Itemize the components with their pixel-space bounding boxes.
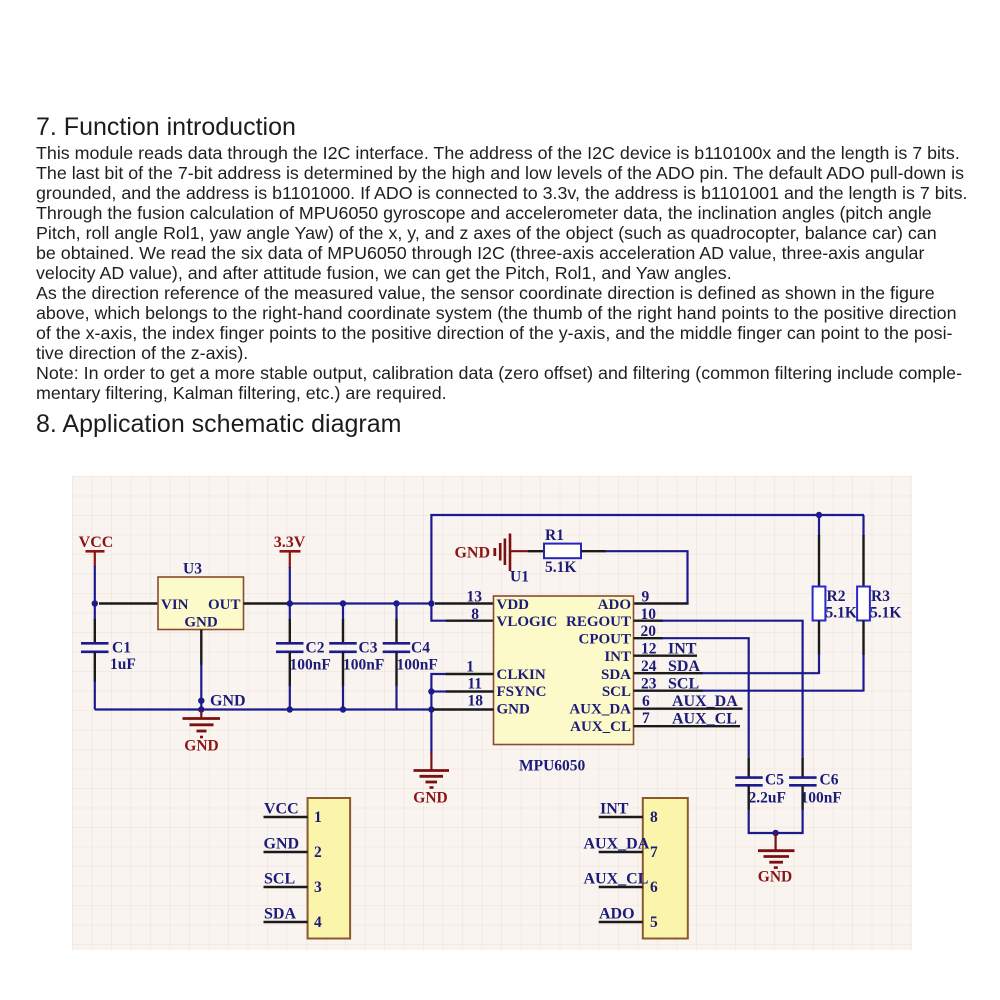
- svg-text:FSYNC: FSYNC: [497, 684, 547, 700]
- svg-text:SCL: SCL: [668, 676, 699, 693]
- power ground symbol at U1 (sideways): [454, 534, 529, 572]
- svg-text:C3: C3: [359, 640, 378, 657]
- power symbol VCC: [79, 534, 114, 567]
- wire OUT pin to rail: [244, 602, 433, 604]
- svg-text:11: 11: [467, 676, 482, 693]
- node VCC/C1 junction: [92, 600, 98, 606]
- svg-text:100nF: 100nF: [397, 657, 438, 674]
- wire R1 to ADO pin: [605, 551, 689, 603]
- svg-text:GND: GND: [264, 836, 300, 853]
- svg-text:R1: R1: [545, 527, 564, 544]
- wire SDA pin to R2 with net label: [634, 658, 819, 675]
- svg-text:ADO: ADO: [598, 597, 631, 613]
- wire CLKIN/FSYNC/GND branch vertical: [431, 674, 447, 754]
- svg-text:U1: U1: [510, 569, 529, 586]
- svg-text:VDD: VDD: [497, 597, 530, 613]
- svg-text:AUX_CL: AUX_CL: [672, 711, 737, 728]
- wire VCC to VIN rail: [95, 566, 158, 604]
- wire P1 pin3 with net label SCL: [264, 871, 308, 888]
- svg-text:C5: C5: [765, 772, 784, 789]
- svg-text:CLKIN: CLKIN: [497, 667, 546, 683]
- capacitor C5: [735, 772, 786, 811]
- svg-text:CPOUT: CPOUT: [579, 632, 632, 648]
- svg-text:AUX_CL: AUX_CL: [570, 719, 631, 735]
- wire GND pin: [433, 708, 494, 710]
- wire CPOUT to C5: [634, 638, 749, 777]
- wire 3.3V vertical riser and top rail: [431, 515, 864, 621]
- node C3 top junction: [340, 600, 346, 606]
- capacitor C1: [81, 604, 136, 710]
- svg-text:GND: GND: [413, 790, 447, 807]
- node C4 top junction: [393, 600, 399, 606]
- svg-text:5.1K: 5.1K: [870, 605, 901, 622]
- svg-text:U3: U3: [183, 561, 202, 578]
- svg-text:GND: GND: [184, 738, 218, 755]
- svg-text:1uF: 1uF: [110, 656, 136, 673]
- svg-text:OUT: OUT: [208, 597, 241, 613]
- wire VDD pin: [435, 602, 494, 604]
- svg-text:7: 7: [642, 710, 650, 727]
- svg-text:5.1K: 5.1K: [826, 605, 857, 622]
- wire REGOUT to C6: [634, 621, 803, 778]
- svg-text:ADO: ADO: [599, 906, 635, 923]
- node VDD branch junction: [428, 600, 434, 606]
- op-amp U1 MPU6050 chip: [494, 569, 634, 775]
- connector P2: [643, 798, 688, 939]
- wire U3 GND pin down to ground rail: [200, 630, 202, 710]
- svg-text:C2: C2: [306, 640, 325, 657]
- wire VLOGIC pin: [446, 620, 494, 622]
- svg-text:8: 8: [471, 606, 479, 623]
- svg-text:R2: R2: [827, 588, 846, 605]
- svg-text:C6: C6: [820, 772, 839, 789]
- svg-text:100nF: 100nF: [343, 657, 384, 674]
- node top rail R2 junction: [816, 512, 822, 518]
- svg-text:INT: INT: [600, 801, 629, 818]
- svg-text:1: 1: [314, 809, 322, 826]
- svg-text:GND: GND: [497, 702, 531, 718]
- svg-text:100nF: 100nF: [801, 790, 842, 807]
- wire P2 pin7 with net label AUX_DA: [584, 836, 650, 853]
- svg-text:3: 3: [314, 879, 322, 896]
- wire P1 pin2 with net label GND: [264, 836, 308, 853]
- node C3/rail junction: [340, 706, 346, 712]
- svg-text:4: 4: [314, 914, 322, 931]
- svg-text:6: 6: [642, 693, 650, 710]
- svg-text:GND: GND: [184, 615, 218, 631]
- wire FSYNC pin: [431, 690, 493, 692]
- wire AUX_DA pin with net label: [634, 693, 743, 710]
- svg-text:INT: INT: [668, 641, 697, 658]
- node GND net label junction: [198, 698, 204, 704]
- svg-text:GND: GND: [210, 693, 246, 710]
- svg-text:2.2uF: 2.2uF: [749, 790, 786, 807]
- svg-text:INT: INT: [604, 649, 631, 665]
- svg-text:VCC: VCC: [264, 801, 299, 818]
- ground symbol below U3: [183, 710, 221, 755]
- wire CLKIN pin: [446, 673, 494, 675]
- svg-text:2: 2: [314, 844, 322, 861]
- capacitor C6: [789, 772, 842, 811]
- capacitor C4: [383, 604, 438, 710]
- svg-text:SDA: SDA: [668, 658, 700, 675]
- svg-text:SCL: SCL: [602, 684, 631, 700]
- node C5/C6 ground junction: [772, 830, 778, 836]
- node C2/rail junction: [287, 706, 293, 712]
- ground symbol below chip: [413, 753, 449, 807]
- svg-text:GND: GND: [758, 869, 792, 886]
- svg-text:VLOGIC: VLOGIC: [497, 614, 558, 630]
- wire P1 pin4 with net label SDA: [264, 906, 308, 923]
- svg-text:MPU6050: MPU6050: [519, 758, 586, 775]
- wire SCL pin to R3 with net label: [634, 676, 864, 693]
- svg-text:VCC: VCC: [79, 534, 114, 551]
- node FSYNC junction: [428, 688, 434, 694]
- wire bottom ground rail: [95, 708, 433, 710]
- svg-text:C4: C4: [411, 640, 430, 657]
- connector P1: [308, 798, 351, 939]
- node 3.3V/C2 junction: [287, 600, 293, 606]
- svg-text:8: 8: [650, 809, 658, 826]
- svg-text:7: 7: [650, 844, 658, 861]
- regulator U3: [158, 561, 244, 631]
- resistor R1: [528, 527, 606, 576]
- wire P2 pin5 with net label ADO: [599, 906, 643, 923]
- wire P2 pin8 with net label INT: [599, 801, 643, 818]
- svg-text:100nF: 100nF: [290, 657, 331, 674]
- svg-text:18: 18: [468, 693, 484, 710]
- svg-text:6: 6: [650, 879, 658, 896]
- svg-text:3.3V: 3.3V: [274, 534, 306, 551]
- wire C5/C6 common ground link: [749, 809, 803, 833]
- svg-text:VIN: VIN: [161, 597, 189, 613]
- power symbol 3.3V: [274, 534, 306, 604]
- resistor R3: [857, 515, 901, 692]
- svg-text:SDA: SDA: [601, 667, 631, 683]
- svg-text:9: 9: [642, 589, 650, 606]
- wire P2 pin6 with net label AUX_CL: [584, 871, 649, 888]
- resistor R2: [813, 515, 857, 674]
- svg-text:AUX_DA: AUX_DA: [672, 693, 738, 710]
- capacitor C2: [276, 604, 331, 710]
- capacitor C3: [329, 604, 384, 710]
- node U3-GND / rail junction: [198, 706, 204, 712]
- wire P1 pin1 with net label VCC: [264, 801, 308, 818]
- wire AUX_CL pin with net label: [634, 711, 740, 728]
- svg-text:AUX_DA: AUX_DA: [569, 702, 631, 718]
- svg-text:R3: R3: [871, 588, 890, 605]
- ground symbol below C5/C6: [758, 833, 795, 886]
- wire INT pin with net label: [634, 641, 697, 658]
- svg-text:C1: C1: [112, 640, 131, 657]
- svg-text:REGOUT: REGOUT: [566, 614, 631, 630]
- svg-text:13: 13: [467, 589, 483, 606]
- svg-text:SDA: SDA: [264, 906, 296, 923]
- svg-text:5: 5: [650, 914, 658, 931]
- svg-text:GND: GND: [454, 545, 490, 562]
- svg-text:AUX_DA: AUX_DA: [584, 836, 650, 853]
- node GND rail junction: [428, 706, 434, 712]
- svg-text:AUX_CL: AUX_CL: [584, 871, 649, 888]
- svg-text:SCL: SCL: [264, 871, 295, 888]
- svg-text:5.1K: 5.1K: [545, 559, 576, 576]
